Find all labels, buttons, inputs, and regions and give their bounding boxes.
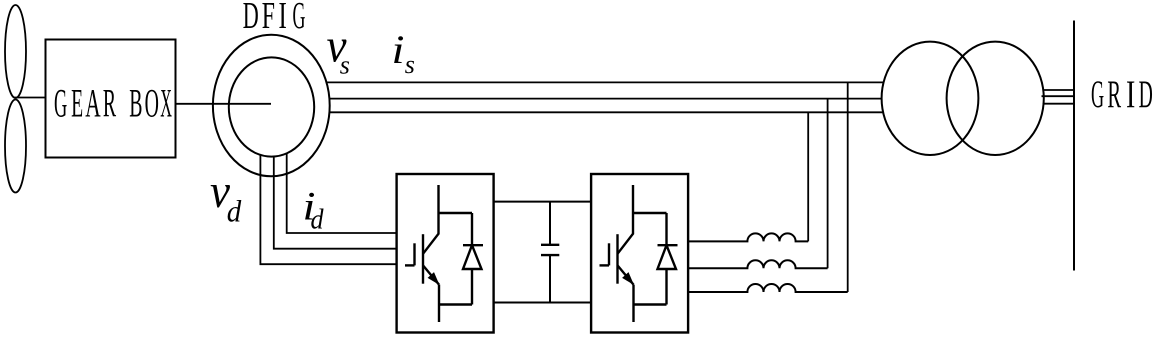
wire: rotor phase lead 1 (right) — [287, 153, 397, 233]
converter U1 (rotor-side) box — [397, 174, 494, 333]
gate bar — [413, 243, 415, 265]
label GRID — [1091, 73, 1153, 116]
label i_s — [392, 27, 415, 79]
wire: collector to diode D2 cathode — [633, 212, 667, 214]
wire: emitter to diode D1 anode — [439, 303, 472, 305]
gear box — [46, 40, 176, 158]
svg-text:R: R — [103, 81, 116, 126]
svg-text:B: B — [129, 81, 142, 126]
svg-text:d: d — [227, 194, 242, 229]
svg-text:D: D — [1139, 73, 1153, 116]
label v_d — [210, 165, 242, 229]
svg-text:G: G — [1091, 73, 1104, 116]
inductor L2 (middle filter choke) — [688, 260, 828, 268]
DFIG stator (outer circle) — [213, 35, 330, 177]
wire: DC bus positive rail — [494, 201, 591, 203]
collector lead — [423, 185, 439, 254]
body bar — [616, 234, 618, 284]
gate lead — [405, 264, 415, 266]
wire: stator phase B to transformer — [329, 98, 882, 100]
wire: transformer to grid phase B — [1042, 95, 1075, 97]
wire: rotor phase lead 3 (left) — [260, 155, 396, 264]
wire: emitter to diode D2 anode — [634, 303, 667, 305]
capacitor C1 (DC link) — [541, 202, 559, 303]
wire: stator phase C to transformer — [329, 111, 883, 113]
label GEAR BOX — [54, 81, 172, 126]
transistor Q2 (IGBT, grid-side converter) — [600, 185, 667, 322]
svg-text:X: X — [160, 81, 172, 126]
svg-text:E: E — [71, 81, 83, 126]
svg-text:O: O — [145, 81, 159, 126]
transformer T1 primary winding — [882, 42, 979, 155]
emitter with arrow — [618, 265, 634, 284]
wire: stator phase A to transformer — [326, 81, 884, 83]
label i_d — [303, 184, 324, 236]
wire: DC bus negative rail — [494, 302, 591, 304]
wire: turbine shaft to gear box — [14, 97, 46, 99]
svg-text:s: s — [340, 51, 350, 80]
converter U2 (grid-side) box — [591, 174, 688, 333]
label DFIG — [243, 0, 306, 37]
wire: L2 riser to stator phase B — [827, 99, 829, 269]
wire: transformer to grid phase C — [1043, 103, 1075, 105]
diode D2 (grid-side converter) — [658, 213, 678, 305]
wire: L1 riser to stator phase C — [807, 112, 809, 241]
inductor L1 (top filter choke) — [688, 233, 808, 241]
emitter lead — [632, 285, 634, 322]
svg-text:I: I — [279, 0, 287, 37]
body bar — [422, 234, 424, 284]
collector lead — [618, 185, 634, 254]
wire: collector to diode D1 cathode — [439, 212, 473, 214]
emitter with arrow — [423, 265, 439, 284]
svg-text:G: G — [293, 0, 306, 37]
svg-text:d: d — [311, 204, 324, 236]
transformer T1 secondary winding — [947, 42, 1044, 155]
label v_s — [327, 20, 350, 80]
svg-text:F: F — [262, 0, 275, 37]
svg-text:G: G — [54, 81, 67, 126]
wire: rotor phase lead 2 (middle) — [274, 157, 397, 249]
wind turbine blade (top) — [5, 5, 26, 98]
DFIG rotor (inner circle) — [229, 57, 314, 156]
wire: transformer to grid phase A — [1043, 89, 1074, 91]
svg-text:I: I — [1126, 73, 1135, 116]
wire: gear box shaft to DFIG rotor center — [176, 103, 272, 105]
transistor Q1 (IGBT, rotor-side converter) — [405, 185, 472, 322]
gate lead — [600, 264, 610, 266]
wind turbine blade (bottom) — [5, 100, 26, 193]
svg-text:i: i — [392, 27, 405, 72]
gate bar — [608, 243, 610, 265]
emitter lead — [438, 285, 440, 322]
inductor L3 (bottom filter choke) — [688, 284, 848, 292]
diode D1 (rotor-side converter) — [463, 213, 483, 305]
grid bus — [1073, 21, 1075, 271]
svg-text:s: s — [405, 50, 415, 79]
svg-text:D: D — [243, 0, 259, 37]
wire: L3 riser to stator phase A — [847, 82, 849, 292]
svg-text:A: A — [85, 81, 100, 126]
svg-text:R: R — [1107, 73, 1121, 116]
